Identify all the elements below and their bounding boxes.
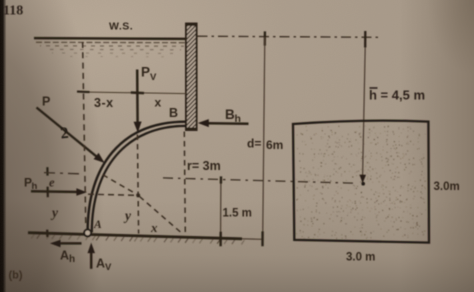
svg-text:e: e <box>49 176 55 190</box>
svg-text:A: A <box>60 249 69 263</box>
svg-text:6m: 6m <box>266 138 283 152</box>
svg-text:B: B <box>169 106 178 120</box>
svg-text:V: V <box>105 262 112 273</box>
svg-text:h: h <box>32 181 38 192</box>
svg-text:W.S.: W.S. <box>109 21 133 33</box>
svg-text:x: x <box>150 220 158 235</box>
svg-text:h: h <box>69 254 75 265</box>
svg-text:x: x <box>155 96 162 110</box>
svg-text:A: A <box>93 219 102 231</box>
svg-text:r= 3m: r= 3m <box>187 159 221 173</box>
svg-text:A: A <box>96 257 105 271</box>
svg-text:P: P <box>141 65 150 80</box>
svg-text:B: B <box>225 107 235 122</box>
svg-text:d=: d= <box>247 137 261 151</box>
svg-text:(b): (b) <box>9 270 23 282</box>
svg-text:3-x: 3-x <box>94 96 114 110</box>
svg-text:P: P <box>42 95 50 109</box>
svg-text:118: 118 <box>3 4 23 19</box>
svg-text:3.0 m: 3.0 m <box>346 252 375 264</box>
svg-text:h: h <box>235 113 241 125</box>
svg-text:1.5 m: 1.5 m <box>223 208 252 220</box>
svg-text:y: y <box>50 205 59 220</box>
svg-text:h = 4,5 m: h = 4,5 m <box>369 88 425 103</box>
svg-text:y: y <box>123 208 132 223</box>
svg-text:V: V <box>150 72 157 83</box>
svg-text:3.0m: 3.0m <box>434 181 460 193</box>
